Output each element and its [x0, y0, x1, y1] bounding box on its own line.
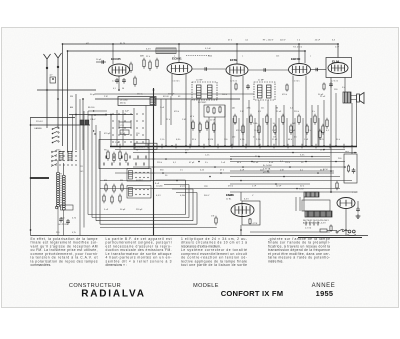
svg-text:B+ 2x300: B+ 2x300 [263, 165, 273, 167]
svg-text:x: x [242, 56, 243, 58]
svg-text:1er MF: 1er MF [196, 79, 203, 82]
wire stub y115 [88, 114, 107, 116]
capacitor cluster below V1 [115, 78, 119, 84]
labels field row c [232, 137, 297, 139]
labels padder [56, 232, 76, 234]
svg-text:6M8: 6M8 [140, 56, 144, 58]
svg-text:1 M: 1 M [182, 119, 186, 121]
wire return 2 riser [188, 185, 190, 218]
wire transformer feed 3 [303, 197, 305, 211]
svg-text:AM: AM [70, 106, 73, 109]
wire y176 [230, 176, 340, 178]
svg-text:50: 50 [122, 88, 124, 90]
labels tube row [140, 56, 311, 58]
wire v356 [356, 95, 358, 147]
svg-text:tout une partie de la liaison: tout une partie de la liaison de sortie [181, 263, 247, 267]
antenna AM [44, 54, 51, 69]
tube pin labels [112, 81, 338, 83]
text column 2 [106, 237, 172, 267]
rect tone network box [344, 154, 357, 183]
svg-text:CADRE: CADRE [34, 127, 42, 130]
wire v186 [185, 74, 187, 146]
resistor 1M left of EM85 [215, 216, 217, 225]
wire v161 [160, 99, 162, 125]
wire return 3 riser [192, 189, 194, 221]
wire v306 [305, 76, 307, 147]
svg-text:1910: 1910 [352, 191, 358, 194]
wire filter cap lead [357, 201, 359, 208]
wire v67 [67, 51, 69, 153]
resistor EM85 grid [249, 218, 251, 225]
wire v225 [224, 105, 226, 146]
svg-text:300 V: 300 V [204, 195, 210, 197]
wire left edge vertical [30, 117, 32, 236]
wire v72 [72, 115, 74, 152]
wire stub y111 [88, 110, 107, 112]
wire AVC bus [37, 89, 96, 91]
svg-text:2 M: 2 M [104, 96, 108, 98]
svg-text:EL84: EL84 [332, 60, 340, 64]
svg-text:GO: GO [80, 171, 84, 173]
svg-text:1n: 1n [253, 137, 255, 139]
node dots mid band [153, 149, 356, 190]
wire v166 [165, 99, 167, 146]
wire EM85 top [240, 192, 242, 201]
labels field row b [234, 123, 296, 125]
transformer power TR1 [305, 211, 332, 217]
capacitor grid ECC85 [102, 60, 104, 64]
wire y180 [100, 180, 352, 182]
tube ECC85 V1 [109, 57, 130, 76]
wire mains 2 [344, 230, 348, 232]
wire EM85 bottom [240, 225, 242, 236]
wire main vertical bus [153, 88, 155, 236]
text column 1 [31, 237, 99, 267]
trimmer box 2 [120, 130, 129, 135]
wire return 4 top [176, 192, 197, 194]
wire v243 [242, 76, 244, 146]
svg-text:1 2 3 4 5: 1 2 3 4 5 [293, 81, 300, 83]
wire ECC85 anode [112, 44, 114, 64]
svg-text:AM: AM [104, 179, 107, 182]
wire return 1 [88, 214, 186, 216]
svg-text:C.A.V.: C.A.V. [90, 118, 96, 121]
tube ECH81 V2 [167, 57, 192, 75]
svg-text:47 pF: 47 pF [189, 162, 195, 164]
wire transformer feed 2 [299, 197, 301, 211]
svg-text:C.V.: C.V. [121, 125, 125, 127]
svg-text:SECTEUR 110-130-220-240 V: SECTEUR 110-130-220-240 V [303, 220, 329, 222]
wire y156 [230, 156, 330, 158]
svg-text:PO: PO [80, 166, 83, 168]
wire return 2 [92, 217, 189, 219]
wire return 1 riser [185, 180, 187, 215]
capacitor row switch 1 [106, 156, 146, 159]
svg-text:1M: 1M [276, 108, 279, 110]
svg-text:50: 50 [273, 123, 275, 125]
svg-text:25 uF: 25 uF [253, 162, 259, 164]
wire antenna FM lead [57, 67, 59, 128]
component row lower left 1 [105, 183, 107, 192]
capacitor screen EF89 [246, 84, 250, 90]
wire y159 [133, 158, 330, 160]
terminal strip mains [306, 222, 318, 226]
svg-text:GO PO FM: GO PO FM [58, 224, 69, 226]
wire v268 [267, 100, 269, 146]
svg-text:x: x [310, 56, 311, 58]
switch contact rows gamme [51, 150, 77, 167]
wire AVC bus 2 [95, 93, 254, 95]
svg-text:RADIALVA: RADIALVA [81, 289, 146, 300]
wire v84 [83, 111, 85, 228]
svg-text:460 kc: 460 kc [137, 94, 143, 96]
wire EZ80 to transformer [345, 209, 347, 236]
svg-text:FM: FM [70, 96, 73, 98]
svg-text:50 pF: 50 pF [90, 94, 96, 96]
rect switch bank 2 [127, 169, 151, 182]
tube EM85 magic eye V7 [226, 193, 254, 217]
svg-text:25 uF: 25 uF [276, 111, 282, 113]
node coil end [55, 206, 58, 209]
wire HT corner to EL84 [337, 44, 339, 58]
wire coil down 1 [57, 208, 59, 236]
wire transformer feed 1 [295, 197, 297, 211]
wire v96 [95, 125, 97, 221]
svg-text:10 nF: 10 nF [254, 130, 260, 132]
wire HT top bus [63, 43, 339, 45]
wire y184 [230, 183, 310, 185]
wire y173 [115, 172, 334, 174]
resistor EZ80 limiter [336, 181, 338, 190]
speaker HP [357, 93, 365, 104]
label HT left [86, 43, 90, 45]
wire EBF80 anode [298, 44, 300, 64]
wire return 4 riser [196, 193, 198, 225]
wire ECC85 cathode [118, 76, 120, 90]
svg-text:10 nF: 10 nF [276, 186, 282, 188]
text column 3 [181, 237, 247, 267]
svg-text:corr.: corr. [345, 150, 349, 153]
svg-text:220: 220 [232, 137, 235, 139]
wire v259 [258, 100, 260, 146]
label BL [120, 43, 126, 45]
coil terminal box [61, 205, 74, 210]
wire v171 [170, 96, 172, 125]
wire bus y99 [95, 98, 240, 100]
wire dashed grid line [186, 55, 210, 57]
wire y232 [250, 231, 330, 233]
svg-text:CONFORT IX FM: CONFORT IX FM [221, 289, 284, 298]
svg-text:12 BL: 12 BL [226, 199, 232, 201]
resistor cluster detector [192, 120, 194, 131]
coil FM line 1 [156, 48, 176, 54]
svg-text:2x300: 2x300 [228, 195, 234, 197]
resistor cluster left mid [107, 150, 109, 161]
text column 4 [268, 237, 330, 263]
svg-text:50 pF: 50 pF [120, 209, 126, 211]
svg-text:10 pF: 10 pF [96, 59, 102, 61]
svg-text:15 nF: 15 nF [272, 139, 278, 141]
wire EF89 anode [236, 44, 238, 64]
wire mains 1 [327, 230, 337, 232]
svg-text:grave: grave [180, 185, 186, 188]
svg-text:0,1: 0,1 [290, 108, 293, 110]
wire y188 [100, 188, 340, 190]
capacitor coupling C3 [316, 68, 318, 72]
wire y149 [115, 149, 345, 151]
capacitor tone [352, 168, 356, 174]
resistor field mid [234, 114, 236, 125]
wire v231 [230, 76, 232, 146]
wire v83 [82, 99, 84, 150]
wire return 4 [100, 223, 197, 225]
switch wafer AM-FM [52, 127, 60, 144]
capacitor row switch 2 [104, 163, 144, 166]
ground [356, 214, 361, 219]
wire v62 [62, 44, 64, 146]
tube EL84 V5 [328, 60, 348, 74]
svg-text:HT 250: HT 250 [263, 172, 271, 174]
wire return 3 [96, 220, 193, 222]
wire antenna AM lead [46, 68, 48, 128]
svg-text:1 2 3 4 5: 1 2 3 4 5 [112, 81, 119, 83]
transformer output TR2 [343, 92, 351, 103]
wire v324 [323, 100, 325, 146]
resistor cathode EBF80 [286, 84, 288, 92]
labels above EL84 [293, 47, 340, 49]
resistor cluster V2 grid [143, 58, 145, 69]
svg-text:T.S. 470 k: T.S. 470 k [293, 47, 302, 49]
wire y117 [31, 117, 76, 119]
svg-text:2 M: 2 M [280, 170, 284, 172]
resistor cathode EF89 [235, 83, 237, 91]
svg-text:220 pF: 220 pF [168, 94, 175, 96]
transformer MF3 [254, 82, 275, 100]
svg-text:aigu: aigu [204, 186, 208, 188]
svg-text:4,7 M: 4,7 M [253, 223, 258, 225]
svg-text:EF89: EF89 [230, 58, 238, 62]
svg-text:0,5 M: 0,5 M [208, 139, 213, 141]
labels HT row [228, 40, 336, 42]
fuse mains [320, 229, 327, 232]
svg-text:dimensions » :: dimensions » : [106, 263, 127, 267]
svg-text:2e canal: 2e canal [120, 100, 128, 102]
svg-text:1 2 3 4 5: 1 2 3 4 5 [230, 81, 237, 83]
wire ECC85 grid stub [96, 61, 106, 63]
wire return 3 top [172, 188, 193, 190]
svg-text:10 nF: 10 nF [210, 120, 216, 122]
svg-text:2M2: 2M2 [292, 123, 296, 125]
svg-text:4n7: 4n7 [234, 123, 237, 125]
wire drop to EBF80 [304, 51, 306, 63]
tube EBF80 V4 [289, 57, 311, 76]
wire ECH81 anode [178, 44, 180, 63]
svg-text:470 pF: 470 pF [104, 133, 111, 135]
wire tuning gang shaft [30, 177, 49, 179]
tube EZ80 rectifier V6 [337, 198, 355, 209]
svg-text:COMMUT.: COMMUT. [135, 147, 146, 149]
wire v76 [75, 94, 77, 150]
coil oscillator L1 [57, 172, 60, 207]
svg-text:0,1: 0,1 [113, 88, 116, 90]
wire return 5 [100, 227, 217, 229]
wire v336 [335, 93, 337, 146]
capacitor filter electrolytic [356, 207, 360, 213]
antenna FM [55, 53, 62, 68]
svg-text:88-100: 88-100 [88, 107, 95, 109]
wire y171 [230, 170, 334, 172]
svg-text:1 2 3 4 5: 1 2 3 4 5 [331, 81, 338, 83]
wire y114 [69, 114, 133, 116]
svg-text:0,1 uF: 0,1 uF [205, 48, 212, 50]
svg-text:1 2 3 4: 1 2 3 4 [305, 228, 312, 230]
contact grid FM switch [112, 113, 143, 142]
wire v199 [198, 100, 200, 146]
rect power block outline [302, 200, 330, 211]
svg-text:2e MF: 2e MF [258, 80, 265, 82]
svg-text:4,7k: 4,7k [72, 232, 76, 234]
coil antenna L2 [62, 175, 65, 210]
wire y125 [31, 124, 91, 126]
transformer MF2 [192, 82, 217, 100]
svg-text:220 pF: 220 pF [136, 209, 143, 211]
wire v352 [351, 103, 353, 154]
switch bank contacts [129, 171, 149, 197]
resistor screen EL84 [323, 83, 325, 91]
node ticks on chassis bus [120, 144, 344, 149]
wire mains bus [298, 237, 362, 239]
svg-text:ALIM. 50 Hz - 60 W - 6,3 V: ALIM. 50 Hz - 60 W - 6,3 V [303, 222, 326, 225]
wire v215 [214, 117, 216, 146]
wire y192 [230, 191, 352, 193]
svg-text:EX 40: EX 40 [163, 96, 169, 98]
svg-text:2 M: 2 M [240, 111, 244, 113]
svg-text:OSC: OSC [56, 150, 61, 152]
wire v100 [99, 131, 101, 224]
wire v293 [292, 76, 294, 147]
svg-text:25 uF: 25 uF [315, 40, 321, 42]
svg-text:0,3 A: 0,3 A [180, 194, 185, 197]
svg-text:BL 26: BL 26 [120, 43, 126, 45]
dark component pair [80, 120, 84, 125]
wire v331 [330, 78, 332, 193]
wire switch verticals [116, 110, 118, 146]
tube EF89 V3 [226, 58, 248, 76]
capacitor coupling C2 [264, 68, 266, 72]
component row lower left 2 [103, 194, 105, 203]
svg-text:POTENT.: POTENT. [198, 102, 207, 104]
rect EM85 target box [242, 201, 260, 225]
svg-text:220 V: 220 V [280, 40, 286, 42]
core line [60, 173, 62, 209]
wire y152 [133, 152, 357, 154]
tube EL84 V5 envelope box [326, 58, 352, 78]
svg-text:commandées.: commandées. [31, 263, 52, 267]
svg-text:220k: 220k [208, 56, 212, 58]
node junctions [30, 43, 353, 231]
svg-text:6,3 V: 6,3 V [244, 199, 249, 201]
svg-text:25 uF: 25 uF [320, 96, 326, 98]
plug mains [348, 230, 356, 236]
wire field verticals dense [233, 118, 319, 146]
commutator label block [134, 143, 157, 149]
transformer MF1 block [118, 97, 156, 106]
svg-text:1 M: 1 M [211, 216, 215, 218]
svg-text:MODELE: MODELE [193, 283, 219, 289]
resistor cluster output stage [319, 129, 321, 140]
svg-text:22n: 22n [261, 108, 264, 110]
wire v88 [87, 111, 89, 215]
svg-text:6,3 V: 6,3 V [156, 195, 161, 197]
svg-text:S.T.F.: S.T.F. [299, 189, 305, 191]
wire EBF80 to EL84 grid [311, 69, 327, 71]
svg-text:1955: 1955 [316, 289, 334, 298]
svg-text:x: x [174, 56, 175, 58]
switch mains [336, 229, 344, 233]
wire EF89 to EBF80 grid [248, 69, 289, 71]
svg-text:ARRET: ARRET [136, 179, 144, 182]
wire v318 [317, 105, 319, 146]
wire ECH81 to EF89 grid [192, 68, 226, 70]
svg-text:1 2 3 4 5: 1 2 3 4 5 [173, 81, 180, 83]
svg-text:1n5: 1n5 [276, 56, 279, 58]
svg-text:100k: 100k [253, 123, 257, 125]
wire return 2 top [164, 184, 189, 186]
svg-text:FM: FM [120, 180, 123, 182]
svg-text:EBF80: EBF80 [291, 57, 301, 61]
rect switch bank 1 [99, 140, 149, 169]
labels field row a [232, 108, 293, 110]
wire v111 [110, 115, 112, 147]
wire v172 [171, 74, 173, 96]
svg-text:50 pF: 50 pF [290, 130, 296, 132]
wire return 1 top [156, 179, 186, 181]
coil primary pair [59, 152, 63, 161]
svg-text:ECC85: ECC85 [111, 57, 121, 61]
svg-text:0,5: 0,5 [294, 137, 297, 139]
resistor surge [330, 225, 332, 233]
wire v276 [275, 105, 277, 146]
wire v312 [311, 105, 313, 146]
wire chassis bus [110, 146, 357, 148]
resistor tone 1 [347, 165, 349, 173]
svg-text:1 M: 1 M [272, 130, 276, 132]
wire v284 [283, 105, 285, 146]
resistor cluster volume pot [204, 105, 225, 117]
capacitor antenna coupling [50, 77, 56, 83]
svg-text:6,3 V: 6,3 V [146, 49, 151, 51]
value labels misc [36, 48, 349, 226]
wire y167 [133, 166, 344, 168]
wire coil down 2 [63, 210, 65, 236]
svg-text:tonalite: tonalite [156, 185, 163, 188]
capacitor coupling C1 [205, 67, 207, 71]
wire v209 [208, 117, 210, 146]
svg-text:460 kc: 460 kc [120, 103, 126, 105]
transformer filter choke [304, 192, 319, 197]
svg-text:470k: 470k [247, 108, 251, 110]
trimmer box 1 [119, 122, 131, 128]
padder capacitors [59, 217, 63, 223]
svg-text:6,3V 2A: 6,3V 2A [263, 168, 271, 171]
wire v92 [91, 115, 93, 218]
wire bottom bus [31, 235, 369, 237]
wire v191 [190, 100, 192, 146]
wire top bus 2 [68, 50, 306, 52]
resistor cluster V1 [130, 62, 132, 73]
capacitor cathode EL84 [329, 82, 333, 88]
wire EL84 anode to output transformer [344, 78, 346, 93]
